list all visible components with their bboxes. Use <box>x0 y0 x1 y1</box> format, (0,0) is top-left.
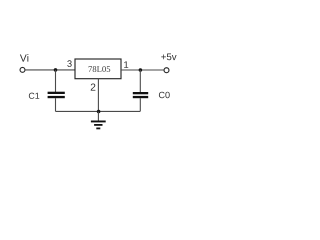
node +5v label <box>161 53 176 60</box>
wire C0 down to ground rail <box>139 98 141 111</box>
pin 1 label <box>124 61 128 68</box>
terminal input circle <box>20 67 25 72</box>
junction ground <box>97 110 101 114</box>
junction input/C1 <box>54 68 58 72</box>
regulator U1 78L05 box <box>75 59 121 79</box>
node Vi label <box>20 54 28 61</box>
pin 2 label <box>91 83 96 90</box>
wire pin 1 to output <box>121 69 164 71</box>
label C1 <box>29 93 39 99</box>
value 78L05 <box>89 66 111 72</box>
wire ground rail <box>56 110 141 112</box>
label C0 <box>159 92 170 98</box>
wire pin 2 down <box>97 79 99 112</box>
junction output/C0 <box>139 68 143 72</box>
capacitor C0 <box>133 92 148 98</box>
terminal output circle <box>164 68 169 73</box>
capacitor C1 <box>48 92 65 99</box>
wire input to pin 3 <box>25 69 75 71</box>
ground <box>91 121 106 130</box>
wire junction down to C0 <box>139 70 141 92</box>
wire C1 down to ground rail <box>55 98 57 111</box>
pin 3 label <box>67 60 71 67</box>
wire ground stem <box>97 112 99 121</box>
wire junction down to C1 <box>55 70 57 92</box>
